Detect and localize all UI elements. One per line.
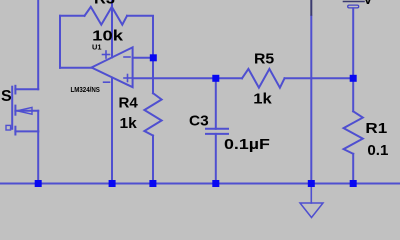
svg-text:U1: U1 <box>92 42 102 51</box>
wire source to rail <box>37 131 39 183</box>
svg-text:S: S <box>1 88 12 105</box>
wire op-amp output <box>60 67 92 69</box>
resistor R5 <box>242 69 285 88</box>
ground <box>300 203 323 218</box>
wire C3 bottom lead <box>215 134 217 184</box>
wire non-inverting input <box>133 77 216 79</box>
ground rail <box>0 183 400 185</box>
resistor R4 <box>144 93 161 135</box>
svg-text:R3: R3 <box>94 0 115 7</box>
wire C3 top lead <box>215 78 217 129</box>
svg-text:1k: 1k <box>253 90 272 107</box>
wire feedback top left lead <box>60 15 85 17</box>
node rail below R1 <box>350 180 357 187</box>
battery V1 <box>344 2 365 8</box>
op-amp U1 <box>92 47 133 87</box>
wire inverting input <box>133 57 153 59</box>
wire feedback left vertical <box>59 16 61 68</box>
dark pin segment top of long vertical <box>310 0 312 16</box>
svg-text:R4: R4 <box>119 94 139 111</box>
wire R3 right lead <box>127 16 153 58</box>
node A inverting input junction <box>150 54 157 61</box>
capacitor C3 <box>206 129 228 134</box>
wire long vertical net <box>310 16 312 184</box>
svg-text:LM324/NS: LM324/NS <box>71 85 100 94</box>
wire R4 top lead <box>152 58 154 93</box>
node rail ground <box>308 180 315 187</box>
node C battery/R5/R1 junction <box>350 75 357 82</box>
svg-text:0.1µF: 0.1µF <box>224 136 270 153</box>
wire R5 to node C <box>285 77 354 79</box>
resistor R1 <box>344 111 363 154</box>
svg-text:R1: R1 <box>365 120 387 137</box>
svg-text:V: V <box>363 0 373 7</box>
svg-text:0.1: 0.1 <box>367 142 388 159</box>
svg-text:R5: R5 <box>254 51 274 68</box>
svg-text:1k: 1k <box>120 115 138 132</box>
wire battery to node C <box>352 8 354 78</box>
node rail below R4 <box>149 180 156 187</box>
wire node B to R5 <box>216 77 242 79</box>
wire V+ supply vertical <box>111 0 113 57</box>
node rail below V- <box>109 180 116 187</box>
wire V- to rail <box>111 78 113 184</box>
gate port square <box>6 125 11 130</box>
wire R1 bottom lead <box>352 154 354 184</box>
wire R4 bottom lead <box>152 136 154 184</box>
transistor Q1 <box>11 86 39 135</box>
wire ground stem <box>310 184 312 204</box>
wire R1 top lead <box>352 78 354 111</box>
svg-text:C3: C3 <box>189 113 209 130</box>
node rail below transistor <box>35 180 42 187</box>
node rail below C3 <box>212 180 219 187</box>
resistor R3 <box>85 7 128 25</box>
node B non-inverting input junction <box>212 75 219 82</box>
wire drain vertical <box>37 0 39 89</box>
